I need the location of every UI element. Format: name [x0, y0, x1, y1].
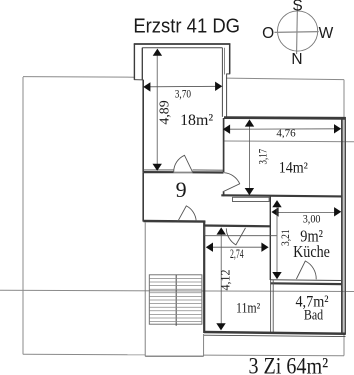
svg-text:O: O: [262, 25, 274, 42]
plot outline gray bottom-right segment: [204, 354, 344, 357]
threshold rect kueche entry: [233, 197, 270, 201]
wall kueche bottom thin: [270, 279, 342, 282]
wall kueche left: [269, 197, 271, 281]
wall west hallway: [142, 80, 144, 173]
svg-text:Bad: Bad: [304, 308, 324, 324]
niche stub vertical: [204, 227, 206, 236]
wall stairwell top: [143, 220, 205, 223]
dim 3,17 line: [248, 123, 250, 192]
door 14m2: [223, 173, 240, 192]
wall left outer (18m2 block): [133, 44, 135, 80]
dim 3,17 arrow up: [245, 119, 254, 126]
svg-text:3,00: 3,00: [303, 213, 321, 225]
wall east outer: [344, 117, 346, 335]
wall south thin: [204, 335, 346, 336]
dim 2,74 line: [210, 246, 266, 248]
dim 4,76 arrow left: [223, 125, 230, 134]
dim 4,89 arrow up: [153, 49, 162, 56]
svg-text:W: W: [319, 25, 334, 42]
plot outline gray left edge: [22, 77, 24, 354]
wall top inner (18m2 block): [142, 47, 222, 49]
dim 3,00 line: [275, 211, 338, 213]
dim 3,21 line: [276, 204, 278, 276]
wall south thick: [204, 332, 346, 334]
dim 3,17 arrow down: [245, 188, 254, 195]
door kueche: [296, 261, 316, 279]
stairs steps: [149, 278, 202, 321]
wall corner step left: [134, 79, 143, 81]
wall 14m2 top: [224, 116, 346, 120]
wall bad left inner: [272, 280, 274, 333]
wall stairwell right: [203, 221, 205, 333]
dim 2,74 arrow right: [261, 243, 268, 252]
wall right step: [226, 73, 230, 75]
wall right mid: [226, 74, 228, 117]
compass needle horizontal: [274, 31, 318, 34]
neighbour line right upper: [223, 140, 354, 143]
wall 14m2 bottom: [221, 195, 342, 196]
wire door sill 18m2: [174, 172, 193, 174]
wall west hallway lower: [142, 173, 144, 222]
wall kueche bottom thick: [270, 282, 342, 285]
wall 11m2 top: [204, 224, 271, 227]
dim 3,70 line: [148, 85, 218, 88]
stairwell block right lower edge: [203, 334, 205, 356]
svg-text:3,17: 3,17: [256, 149, 270, 165]
compass needle vertical: [296, 5, 299, 54]
long gray line across lower area: [0, 290, 354, 291]
dim 4,12 arrow up: [217, 227, 226, 234]
stairs center line: [175, 275, 177, 326]
stairwell block left edge: [144, 223, 146, 357]
dim 3,21 arrow down: [272, 272, 281, 279]
compass circle: [278, 11, 318, 51]
wall 18m2 bottom thick: [143, 171, 173, 173]
svg-text:18m²: 18m²: [180, 110, 213, 129]
plot outline gray bottom-left segment: [23, 353, 145, 356]
wall east inner: [341, 117, 343, 333]
svg-text:S: S: [292, 0, 302, 15]
svg-text:2,74: 2,74: [230, 247, 244, 261]
svg-text:4,76: 4,76: [276, 127, 296, 139]
stairs outline: [149, 275, 202, 324]
niche line under 11m2 wall: [205, 235, 277, 237]
dim 3,70 arrow right: [215, 82, 222, 91]
stairwell block bottom edge: [145, 355, 203, 357]
dim 4,12 arrow down: [216, 323, 225, 330]
plot outline gray right edge: [343, 80, 345, 356]
dim 4,12 line: [220, 231, 222, 327]
svg-text:Küche: Küche: [293, 242, 330, 261]
door stairwell entry: [178, 206, 196, 221]
wall 14m2 left: [223, 118, 225, 172]
svg-text:Erzstr 41 DG: Erzstr 41 DG: [133, 16, 240, 38]
wall 18m2 bottom thick right: [193, 171, 224, 173]
dim 2,74 arrow left: [206, 243, 213, 252]
wall bad left outer: [270, 280, 272, 333]
door 18m2: [174, 155, 193, 171]
dim 3,00 arrow left: [271, 207, 278, 216]
svg-text:N: N: [291, 51, 302, 68]
svg-text:9: 9: [176, 177, 187, 202]
dim 4,89 line: [156, 53, 158, 167]
dim 4,89 arrow down: [153, 164, 162, 171]
svg-text:14m²: 14m²: [279, 160, 309, 177]
door 11m2: [226, 228, 245, 245]
plot outline gray top-right segment: [226, 78, 344, 80]
wall right inner: [221, 48, 223, 117]
dim 4,76 arrow right: [334, 124, 341, 133]
wall 18m2 bottom thin upper right part: [193, 169, 224, 171]
svg-text:3,70: 3,70: [175, 86, 191, 100]
svg-text:4,12: 4,12: [219, 270, 233, 291]
dim 3,70 arrow left: [143, 82, 150, 91]
dim 3,00 arrow right: [334, 207, 341, 216]
dim 3,21 arrow up: [272, 200, 281, 207]
wall 18m2 bottom thin upper left part: [143, 169, 173, 171]
wall right outer (18m2 block): [229, 44, 231, 74]
svg-text:4,89: 4,89: [158, 100, 173, 124]
dim 4,76 line: [227, 128, 338, 130]
wall 14m2 left stub lower: [223, 192, 225, 196]
svg-text:3,21: 3,21: [278, 229, 292, 246]
wall left inner upper: [141, 48, 143, 80]
plot outline gray top-left segment: [23, 76, 134, 79]
svg-text:3 Zi 64m²: 3 Zi 64m²: [249, 354, 329, 375]
svg-text:11m²: 11m²: [236, 301, 261, 317]
wall top outer (18m2 block): [134, 43, 231, 45]
